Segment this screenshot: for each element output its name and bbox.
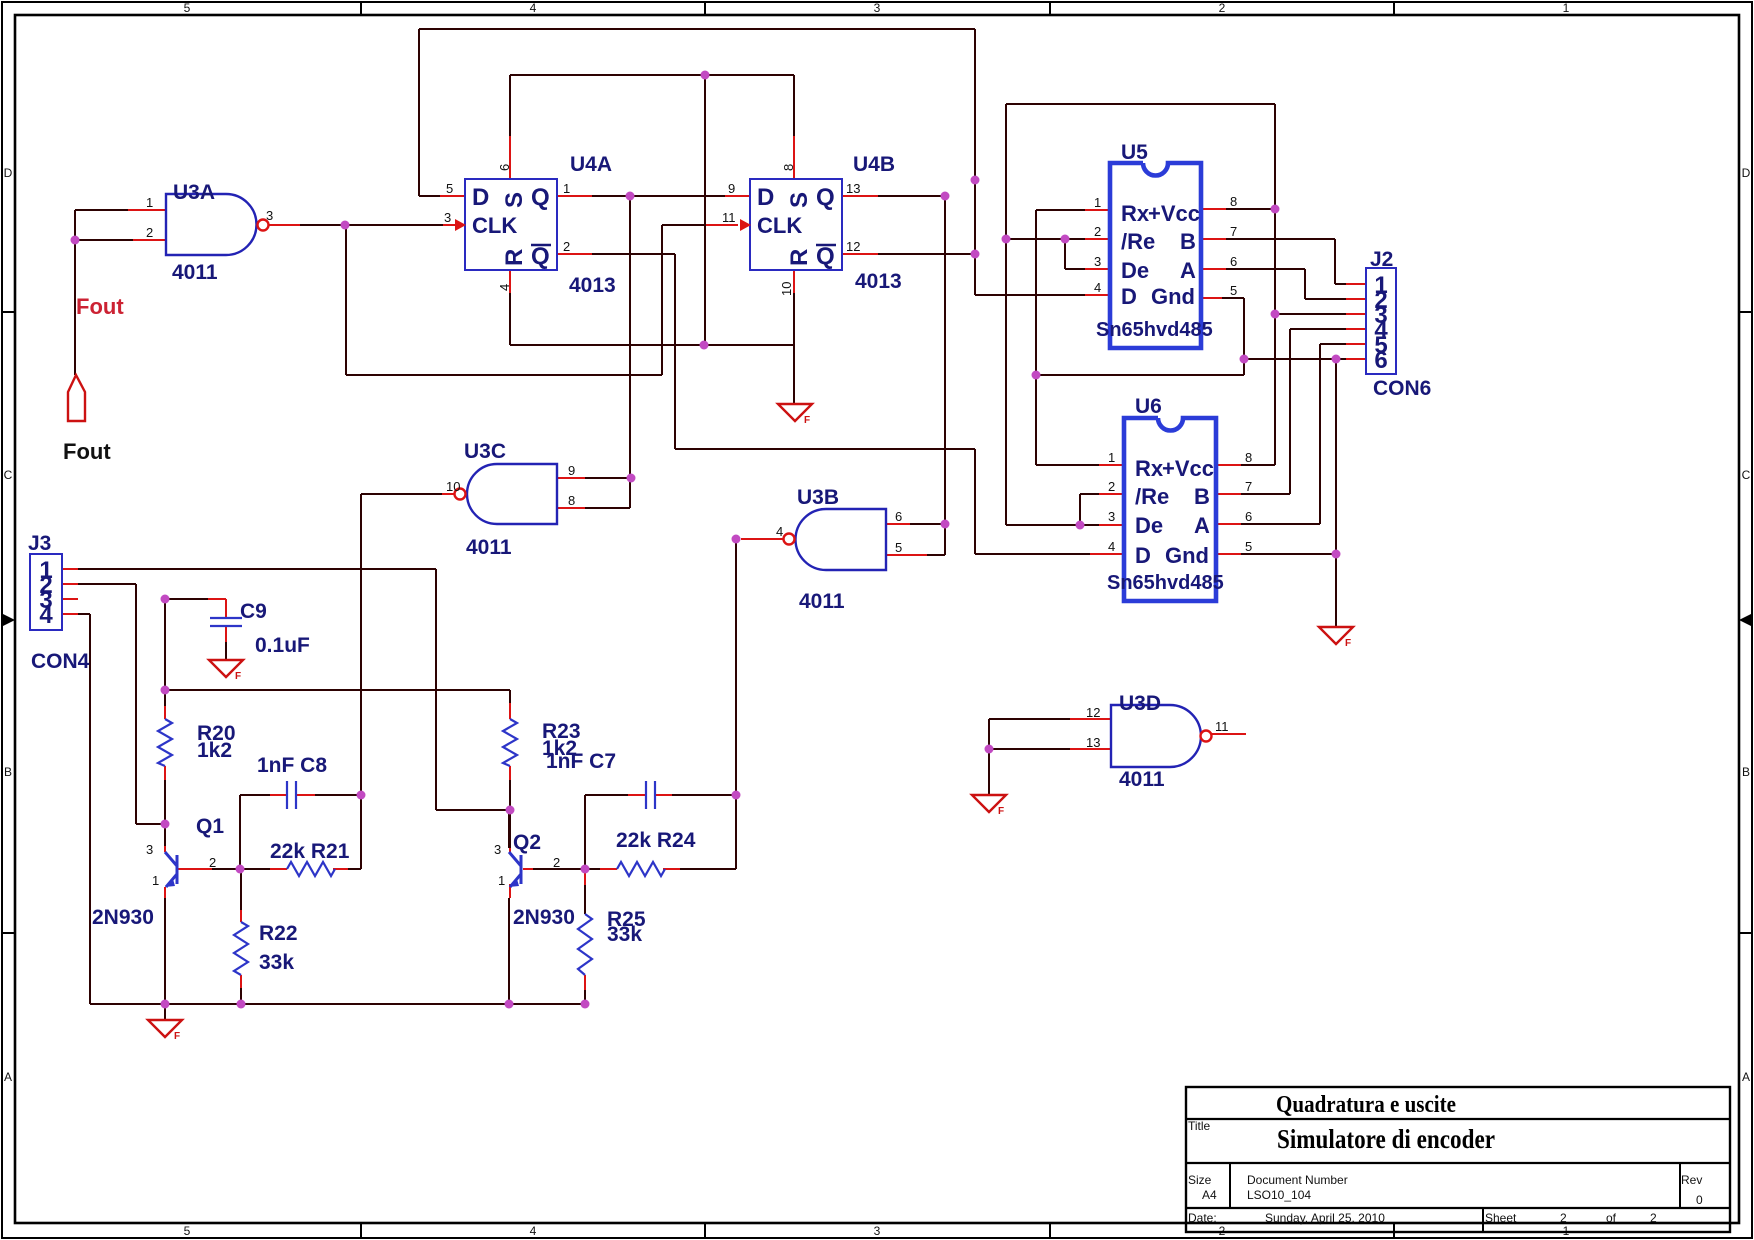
svg-text:3: 3: [1108, 509, 1115, 524]
svg-text:De: De: [1121, 258, 1149, 283]
svg-text:Gnd: Gnd: [1151, 284, 1195, 309]
svg-text:J3: J3: [28, 532, 51, 555]
svg-text:8: 8: [781, 164, 796, 171]
svg-text:4011: 4011: [1119, 768, 1165, 791]
svg-text:2: 2: [209, 855, 216, 870]
svg-text:U4A: U4A: [570, 153, 612, 176]
svg-text:CON4: CON4: [31, 650, 90, 673]
svg-text:D: D: [1742, 166, 1751, 180]
svg-text:3: 3: [266, 208, 273, 223]
svg-text:Document Number: Document Number: [1247, 1173, 1348, 1187]
svg-text:4: 4: [1108, 539, 1115, 554]
svg-text:13: 13: [846, 181, 860, 196]
svg-text:2: 2: [563, 239, 570, 254]
svg-text:Q: Q: [816, 184, 835, 211]
svg-text:2: 2: [1094, 224, 1101, 239]
svg-text:4: 4: [530, 1224, 537, 1238]
svg-text:11: 11: [1215, 719, 1229, 734]
svg-text:4011: 4011: [466, 536, 512, 559]
svg-text:Q1: Q1: [196, 815, 224, 838]
svg-text:D: D: [472, 184, 489, 211]
svg-text:Q: Q: [531, 243, 550, 270]
svg-text:2: 2: [146, 225, 153, 240]
svg-text:F: F: [174, 1031, 180, 1042]
svg-text:Q: Q: [816, 243, 835, 270]
svg-text:Date:: Date:: [1188, 1211, 1217, 1225]
svg-text:3: 3: [874, 1, 881, 15]
svg-text:Rx: Rx: [1121, 201, 1150, 226]
svg-text:2: 2: [1108, 479, 1115, 494]
svg-text:2: 2: [1219, 1, 1226, 15]
svg-text:B: B: [1742, 765, 1750, 779]
svg-text:A4: A4: [1202, 1188, 1217, 1202]
svg-text:4013: 4013: [855, 270, 902, 293]
svg-text:8: 8: [1245, 450, 1252, 465]
svg-text:D: D: [757, 184, 774, 211]
svg-text:4011: 4011: [799, 590, 845, 613]
svg-text:1: 1: [146, 195, 153, 210]
svg-text:F: F: [235, 671, 241, 682]
svg-text:Quadratura e uscite: Quadratura e uscite: [1276, 1092, 1456, 1118]
svg-text:9: 9: [728, 181, 735, 196]
svg-text:7: 7: [1245, 479, 1252, 494]
svg-text:F: F: [1345, 638, 1351, 649]
svg-text:12: 12: [1086, 705, 1100, 720]
svg-text:4: 4: [776, 524, 783, 539]
svg-text:5: 5: [1245, 539, 1252, 554]
svg-text:3: 3: [874, 1224, 881, 1238]
svg-text:4: 4: [530, 1, 537, 15]
svg-text:F: F: [998, 806, 1004, 817]
svg-text:Simulatore di encoder: Simulatore di encoder: [1277, 1124, 1495, 1154]
svg-text:S: S: [501, 192, 528, 208]
svg-text:LSO10_104: LSO10_104: [1247, 1188, 1311, 1202]
svg-text:33k: 33k: [607, 923, 642, 946]
svg-text:B: B: [1180, 229, 1196, 254]
svg-text:1: 1: [563, 181, 570, 196]
svg-text:5: 5: [1230, 283, 1237, 298]
svg-text:1k2: 1k2: [197, 739, 232, 762]
svg-text:10: 10: [446, 479, 460, 494]
svg-text:11: 11: [722, 210, 736, 225]
svg-text:C: C: [4, 468, 13, 482]
svg-text:7: 7: [1230, 224, 1237, 239]
svg-text:U3D: U3D: [1119, 692, 1161, 715]
svg-text:5: 5: [184, 1, 191, 15]
svg-text:Gnd: Gnd: [1165, 543, 1209, 568]
svg-text:S: S: [786, 192, 813, 208]
svg-text:6: 6: [895, 509, 902, 524]
svg-text:/Re: /Re: [1121, 229, 1155, 254]
svg-text:4: 4: [39, 602, 53, 629]
svg-text:0.1uF: 0.1uF: [255, 634, 310, 657]
svg-text:CLK: CLK: [472, 213, 517, 238]
svg-text:1nF C8: 1nF C8: [257, 754, 327, 777]
svg-text:5: 5: [446, 181, 453, 196]
svg-text:D: D: [1121, 284, 1137, 309]
svg-text:1: 1: [1094, 195, 1101, 210]
svg-text:U4B: U4B: [853, 153, 895, 176]
svg-text:Sn65hvd485: Sn65hvd485: [1107, 572, 1224, 594]
svg-text:3: 3: [1094, 254, 1101, 269]
svg-text:22k R24: 22k R24: [616, 829, 696, 852]
svg-text:1: 1: [152, 873, 159, 888]
svg-text:De: De: [1135, 513, 1163, 538]
svg-text:4011: 4011: [172, 261, 218, 284]
svg-text:3: 3: [146, 842, 153, 857]
svg-text:Title: Title: [1188, 1119, 1211, 1133]
svg-text:J2: J2: [1370, 248, 1393, 271]
svg-text:6: 6: [1374, 347, 1387, 374]
svg-text:Q2: Q2: [513, 831, 541, 854]
svg-text:B: B: [1194, 484, 1210, 509]
svg-text:13: 13: [1086, 735, 1100, 750]
svg-text:1: 1: [1563, 1, 1570, 15]
svg-text:6: 6: [1245, 509, 1252, 524]
svg-text:2N930: 2N930: [92, 906, 154, 929]
svg-text:5: 5: [184, 1224, 191, 1238]
svg-text:6: 6: [1230, 254, 1237, 269]
svg-text:C9: C9: [240, 600, 267, 623]
svg-text:2: 2: [553, 855, 560, 870]
svg-text:CLK: CLK: [757, 213, 802, 238]
svg-text:1nF C7: 1nF C7: [546, 750, 616, 773]
svg-text:R: R: [786, 249, 813, 266]
svg-text:2N930: 2N930: [513, 906, 575, 929]
svg-text:R22: R22: [259, 922, 298, 945]
svg-text:of: of: [1606, 1211, 1617, 1225]
svg-text:A: A: [1194, 513, 1210, 538]
svg-text:+Vcc: +Vcc: [1162, 456, 1214, 481]
svg-text:D: D: [4, 166, 13, 180]
svg-text:U5: U5: [1121, 141, 1148, 164]
svg-text:2: 2: [1650, 1211, 1657, 1225]
svg-text:A: A: [1180, 258, 1196, 283]
svg-text:Fout: Fout: [76, 294, 124, 319]
svg-text:Q: Q: [531, 184, 550, 211]
svg-text:A: A: [1742, 1070, 1750, 1084]
svg-text:1: 1: [1108, 450, 1115, 465]
svg-text:10: 10: [779, 282, 794, 296]
svg-text:12: 12: [846, 239, 860, 254]
svg-text:9: 9: [568, 463, 575, 478]
svg-text:C: C: [1742, 468, 1751, 482]
svg-text:+Vcc: +Vcc: [1148, 201, 1200, 226]
svg-text:Size: Size: [1188, 1173, 1212, 1187]
svg-text:/Re: /Re: [1135, 484, 1169, 509]
svg-text:U3A: U3A: [173, 181, 215, 204]
svg-text:D: D: [1135, 543, 1151, 568]
svg-text:Rx: Rx: [1135, 456, 1164, 481]
svg-text:CON6: CON6: [1373, 377, 1431, 400]
svg-text:U6: U6: [1135, 395, 1162, 418]
svg-text:Rev: Rev: [1681, 1173, 1702, 1187]
svg-text:22k R21: 22k R21: [270, 840, 350, 863]
svg-text:Fout: Fout: [63, 439, 111, 464]
svg-text:5: 5: [895, 540, 902, 555]
svg-text:Sunday, April 25, 2010: Sunday, April 25, 2010: [1265, 1211, 1385, 1225]
svg-text:R: R: [501, 249, 528, 266]
svg-text:4013: 4013: [569, 274, 616, 297]
svg-text:Sn65hvd485: Sn65hvd485: [1096, 319, 1213, 341]
svg-text:A: A: [4, 1070, 12, 1084]
svg-text:1: 1: [498, 873, 505, 888]
svg-text:B: B: [4, 765, 12, 779]
svg-text:4: 4: [497, 284, 512, 291]
svg-text:3: 3: [444, 210, 451, 225]
svg-text:F: F: [804, 415, 810, 426]
svg-text:3: 3: [494, 842, 501, 857]
svg-text:U3C: U3C: [464, 440, 506, 463]
svg-text:8: 8: [1230, 194, 1237, 209]
svg-text:2: 2: [1560, 1211, 1567, 1225]
svg-text:U3B: U3B: [797, 486, 839, 509]
svg-text:4: 4: [1094, 280, 1101, 295]
svg-text:6: 6: [497, 164, 512, 171]
svg-text:8: 8: [568, 493, 575, 508]
svg-text:Sheet: Sheet: [1485, 1211, 1517, 1225]
svg-text:33k: 33k: [259, 951, 294, 974]
svg-text:0: 0: [1696, 1193, 1703, 1207]
